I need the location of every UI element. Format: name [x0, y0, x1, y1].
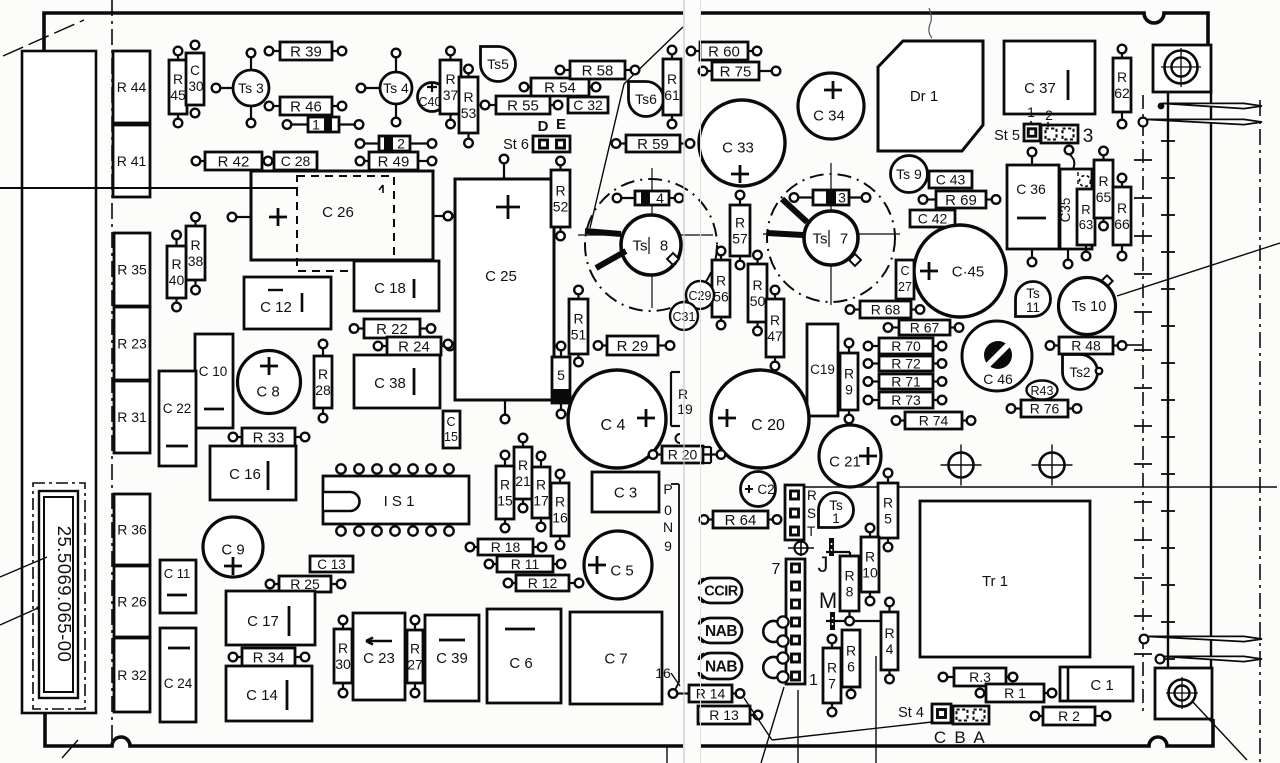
resistor R44 [113, 51, 150, 123]
svg-text:NAB: NAB [705, 623, 737, 640]
svg-text:3: 3 [838, 190, 846, 206]
svg-text:C 5: C 5 [610, 562, 633, 579]
resistor R21 [514, 434, 532, 513]
scratch line [929, 8, 932, 38]
svg-text:10: 10 [862, 565, 878, 581]
svg-text:R43: R43 [1031, 384, 1054, 398]
svg-text:R 2: R 2 [1058, 708, 1080, 724]
svg-text:R: R [1117, 69, 1127, 85]
capacitor C45 [914, 225, 1006, 317]
svg-text:R 75: R 75 [720, 63, 752, 80]
svg-text:C35: C35 [1058, 198, 1073, 223]
svg-text:11: 11 [1026, 300, 1040, 315]
capacitor C1 [1060, 667, 1133, 701]
edge pin [1146, 119, 1262, 124]
capacitor C29 [686, 281, 714, 309]
svg-text:C 20: C 20 [751, 417, 785, 434]
svg-text:R 69: R 69 [945, 192, 977, 209]
svg-text:C 10: C 10 [199, 364, 228, 379]
capacitor C31 [670, 302, 698, 330]
leader line to Ts8 [590, 27, 683, 228]
svg-text:R 22: R 22 [376, 321, 408, 338]
svg-text:C 18: C 18 [374, 280, 406, 297]
svg-text:R 54: R 54 [544, 79, 576, 96]
right rail right edge [1210, 92, 1212, 668]
thin axis through Ts8 [651, 168, 653, 308]
svg-text:C 8: C 8 [256, 383, 279, 400]
capacitor C21 [819, 425, 881, 487]
svg-text:C 36: C 36 [1016, 181, 1046, 197]
svg-text:16: 16 [552, 510, 568, 526]
svg-text:R: R [752, 277, 762, 293]
resistor R45 [169, 47, 187, 128]
integrated circuit IS1 [323, 476, 469, 524]
svg-text:R: R [338, 640, 348, 656]
svg-text:R 23: R 23 [117, 336, 147, 352]
resistor R62 [1113, 45, 1131, 129]
diode 5 [560, 348, 562, 357]
stamp NAB [698, 618, 742, 643]
svg-text:R: R [865, 549, 875, 565]
resistor R34 [229, 648, 310, 666]
svg-text:C19: C19 [810, 362, 835, 377]
svg-text:C 6: C 6 [509, 655, 532, 672]
leader line [761, 687, 784, 763]
capacitor C24 [160, 628, 196, 722]
horizontal reference line right [804, 486, 1277, 488]
leader line to corner [1192, 701, 1247, 760]
svg-text:R 24: R 24 [398, 338, 430, 355]
dash-dot line right edge [1259, 100, 1261, 763]
capacitor C28 [274, 152, 317, 170]
resistor R74 [892, 412, 976, 429]
transistor Ts9 [891, 156, 928, 193]
svg-text:R: R [500, 477, 510, 493]
resistor R72 [864, 356, 947, 372]
svg-text:R: R [410, 641, 420, 657]
resistor R40 [167, 231, 186, 312]
resistor R35 [114, 233, 150, 306]
svg-text:57: 57 [732, 231, 748, 247]
svg-text:5: 5 [884, 511, 892, 527]
loop [763, 621, 783, 642]
svg-text:C 34: C 34 [813, 107, 845, 124]
leader line to Ts10 [1117, 243, 1280, 296]
svg-text:NAB: NAB [705, 659, 737, 676]
jumper J [829, 538, 834, 556]
svg-text:1: 1 [312, 117, 320, 133]
svg-text:R 46: R 46 [290, 98, 322, 115]
capacitor C42 [910, 210, 955, 227]
resistor R16 [551, 470, 569, 550]
svg-text:R 33: R 33 [253, 429, 285, 446]
leader line (dashed, top-left corner) [3, 20, 84, 56]
resistor R64 [700, 511, 782, 529]
capacitor C20 [711, 370, 809, 468]
svg-text:R 70: R 70 [891, 338, 921, 354]
capacitor C27 [896, 260, 914, 299]
svg-text:4: 4 [656, 190, 664, 206]
page seam [683, 0, 685, 763]
capacitor C38 [354, 355, 440, 408]
left connector block [22, 51, 96, 713]
svg-text:C: C [934, 728, 946, 747]
resistor R37 [440, 47, 461, 129]
svg-text:5: 5 [557, 367, 565, 383]
capacitor C16 [210, 446, 296, 500]
svg-text:9: 9 [664, 538, 672, 554]
capacitor C10 [195, 334, 233, 428]
svg-text:4: 4 [886, 641, 894, 657]
resistor R57 [730, 191, 750, 270]
resistor R3 [939, 668, 1018, 686]
svg-text:R: R [807, 488, 817, 503]
resistor R12 [504, 575, 584, 591]
svg-text:C 25: C 25 [485, 268, 517, 285]
svg-text:T: T [807, 524, 815, 539]
thin axis through Ts7 [830, 163, 832, 305]
svg-text:R 11: R 11 [511, 556, 540, 572]
resistor R59 [612, 135, 695, 153]
resistor R66 [1113, 174, 1131, 261]
svg-text:R: R [190, 237, 200, 253]
svg-text:C 4: C 4 [601, 417, 626, 434]
svg-text:C 22: C 22 [163, 401, 192, 416]
transistor Ts6 [629, 82, 664, 117]
svg-text:15: 15 [497, 493, 513, 509]
resistor R28 [314, 340, 332, 423]
capacitor C6 [487, 609, 561, 703]
resistor R10 [861, 524, 879, 606]
svg-text:2: 2 [1045, 107, 1053, 123]
svg-text:Ts: Ts [813, 230, 828, 247]
svg-text:C: C [190, 63, 200, 78]
svg-text:R 67: R 67 [910, 320, 940, 336]
svg-text:R: R [883, 495, 893, 511]
svg-text:R 35: R 35 [117, 262, 147, 278]
resistor R75 [699, 62, 781, 80]
resistor R39 [265, 42, 347, 60]
transistor Ts4 [357, 49, 412, 127]
svg-text:28: 28 [315, 382, 331, 398]
resistor R46 [265, 97, 347, 115]
svg-text:Ts: Ts [633, 237, 648, 254]
connector St4 [932, 704, 951, 723]
svg-text:C 21: C 21 [829, 453, 861, 470]
capacitor C33 [699, 100, 785, 186]
capacitor C13 [310, 556, 353, 572]
svg-text:C 46: C 46 [983, 371, 1013, 387]
board outline bottom edge [45, 713, 683, 746]
svg-text:R 1: R 1 [1004, 685, 1026, 701]
resistor R47 [766, 286, 784, 371]
svg-text:S: S [807, 506, 816, 521]
resistor R6 [842, 630, 860, 698]
svg-text:R 26: R 26 [117, 594, 147, 610]
svg-text:Ts5: Ts5 [487, 56, 509, 72]
svg-text:R: R [445, 71, 455, 87]
svg-text:C·45: C·45 [952, 263, 985, 280]
svg-text:R 64: R 64 [725, 512, 757, 529]
capacitor C26 [251, 171, 433, 260]
resistor R63 [1077, 189, 1095, 260]
connector R-S-T [785, 485, 804, 540]
leader line [0, 608, 38, 625]
resistor R51 [569, 286, 588, 367]
transistor Ts10 [1101, 275, 1112, 286]
svg-text:51: 51 [571, 327, 587, 343]
capacitor C3 [592, 472, 659, 512]
svg-text:45: 45 [170, 87, 186, 103]
resistor R67 [884, 320, 964, 336]
svg-text:C 7: C 7 [604, 650, 627, 667]
capacitor C4 [568, 370, 666, 468]
transistor Ts11 [1016, 282, 1051, 317]
resistor R54 [520, 78, 601, 96]
transformer Tr1 [920, 501, 1090, 657]
svg-text:Ts 4: Ts 4 [383, 80, 409, 96]
svg-text:R: R [844, 366, 854, 382]
svg-text:R: R [173, 71, 183, 87]
svg-text:R: R [318, 366, 328, 382]
svg-text:R 32: R 32 [117, 667, 147, 683]
capacitor C23 [353, 613, 405, 700]
svg-text:2: 2 [397, 136, 405, 152]
resistor R58 [556, 61, 640, 79]
small c mark [676, 434, 681, 443]
svg-text:C 32: C 32 [573, 97, 603, 113]
capacitor C39 [425, 615, 479, 701]
resistor R2 [1031, 707, 1111, 725]
svg-text:C 11: C 11 [164, 566, 191, 581]
svg-text:7: 7 [828, 676, 836, 692]
bracket [710, 447, 712, 463]
resistor R60 [687, 42, 762, 60]
pin [191, 41, 200, 50]
svg-text:1: 1 [1027, 104, 1035, 120]
svg-text:R: R [844, 568, 854, 584]
svg-text:37: 37 [443, 87, 459, 103]
resistor R29 [594, 336, 675, 355]
resistor R48 [1046, 337, 1127, 354]
centerline (dash-dot) x=113 [111, 0, 113, 746]
svg-text:52: 52 [553, 199, 569, 215]
resistor R8 [840, 556, 859, 625]
resistor R42 [192, 152, 273, 170]
transistor Ts7 [767, 174, 895, 302]
svg-text:R 76: R 76 [1030, 401, 1060, 417]
resistor R18 [466, 539, 547, 555]
svg-text:38: 38 [188, 253, 204, 269]
svg-text:R: R [1081, 202, 1090, 217]
resistor R71 [864, 374, 947, 390]
pin [1096, 368, 1102, 374]
stamp CCIR [698, 578, 742, 603]
leader line [744, 698, 772, 740]
resistor R69 [919, 191, 1001, 209]
resistor R15 [496, 451, 514, 533]
svg-text:30: 30 [188, 79, 203, 94]
capacitor C11 [160, 560, 196, 613]
svg-text:R 41: R 41 [117, 153, 147, 169]
loop [763, 657, 783, 678]
svg-text:R 13: R 13 [709, 707, 739, 723]
svg-text:C 9: C 9 [221, 541, 244, 558]
transistor Ts1 [819, 493, 854, 528]
resistor R43 [1027, 381, 1058, 400]
svg-text:C 12: C 12 [260, 299, 292, 316]
resistor R4 [881, 598, 898, 684]
svg-text:R 74: R 74 [919, 413, 949, 429]
svg-text:1: 1 [832, 511, 840, 526]
svg-text:E: E [556, 116, 566, 133]
plated hole [949, 453, 974, 478]
svg-text:65: 65 [1096, 189, 1112, 205]
svg-text:17: 17 [533, 493, 549, 509]
resistor R1 [976, 684, 1057, 702]
svg-text:Ts: Ts [1026, 286, 1040, 301]
svg-text:C 3: C 3 [614, 484, 637, 501]
svg-text:Dr 1: Dr 1 [910, 88, 938, 105]
svg-text:N: N [663, 519, 673, 535]
svg-text:R 48: R 48 [1071, 338, 1101, 354]
resistor R68 [846, 301, 925, 318]
resistor R50 [748, 251, 767, 336]
svg-text:C: C [446, 415, 455, 429]
svg-text:19: 19 [677, 401, 693, 417]
resistor R9 [840, 339, 858, 424]
connector St5 [1024, 124, 1040, 141]
svg-text:R 29: R 29 [617, 338, 649, 355]
svg-text:R: R [1117, 200, 1127, 216]
connector St6 [533, 136, 570, 152]
resistor R53 [459, 65, 478, 148]
resistor R22 [350, 319, 436, 338]
diode 2 [356, 136, 437, 152]
svg-text:R 72: R 72 [891, 356, 921, 372]
svg-text:R 36: R 36 [117, 522, 147, 538]
svg-text:53: 53 [461, 105, 477, 121]
svg-text:C 28: C 28 [281, 153, 311, 169]
svg-text:21: 21 [515, 473, 531, 489]
svg-text:C 13: C 13 [317, 557, 346, 572]
capacitor C35 [1060, 169, 1092, 249]
svg-text:R: R [518, 457, 528, 473]
leader line [772, 722, 932, 740]
svg-text:27: 27 [407, 657, 423, 673]
svg-text:C 42: C 42 [918, 211, 948, 227]
svg-text:56: 56 [713, 289, 729, 305]
resistor R52 [551, 157, 570, 241]
capacitor C37 [1004, 41, 1095, 114]
svg-text:C 26: C 26 [322, 204, 354, 221]
resistor R73 [864, 392, 947, 408]
svg-text:16: 16 [655, 665, 671, 681]
capacitor C7 [570, 612, 662, 704]
svg-text:50: 50 [750, 293, 766, 309]
svg-text:Ts 9: Ts 9 [896, 166, 922, 182]
svg-text:R: R [716, 273, 726, 289]
edge pin [1163, 656, 1262, 661]
svg-text:7: 7 [772, 561, 781, 578]
svg-text:8: 8 [660, 237, 668, 254]
capacitor C17 [226, 591, 315, 645]
svg-text:C: C [900, 264, 909, 278]
capacitor C36 [1007, 165, 1059, 249]
diode 3 [790, 190, 871, 206]
resistor R41 [113, 125, 150, 197]
svg-text:R: R [827, 660, 837, 676]
resistor R49 [356, 152, 437, 170]
svg-text:CCIR: CCIR [704, 584, 738, 600]
svg-text:6: 6 [847, 659, 855, 675]
svg-text:R 34: R 34 [253, 649, 285, 666]
svg-text:8: 8 [846, 584, 854, 600]
resistor R31 [114, 381, 150, 453]
resistor R56 [712, 247, 730, 330]
svg-text:R 73: R 73 [891, 392, 921, 408]
svg-text:R 71: R 71 [891, 374, 921, 390]
svg-text:Ts2: Ts2 [1069, 365, 1090, 380]
svg-text:3: 3 [1083, 126, 1094, 147]
board outline top edge [44, 13, 683, 51]
svg-text:R 18: R 18 [491, 539, 521, 555]
capacitor C34 [798, 73, 864, 139]
svg-text:40: 40 [169, 272, 185, 288]
resistor R33 [229, 428, 310, 446]
resistor R76 [1007, 400, 1082, 417]
resistor R27 [407, 616, 423, 698]
resistor R36 [114, 494, 150, 565]
svg-text:0: 0 [664, 502, 672, 518]
svg-text:D: D [538, 118, 549, 135]
rail contact ticks [1161, 140, 1175, 142]
svg-text:R 59: R 59 [637, 136, 669, 153]
resistor R25 [266, 576, 346, 592]
svg-text:R 68: R 68 [871, 302, 901, 318]
svg-text:62: 62 [1114, 85, 1130, 101]
svg-text:R 58: R 58 [582, 62, 614, 79]
resistor R26 [114, 566, 150, 637]
svg-text:C 43: C 43 [936, 172, 966, 188]
jumper M [830, 612, 835, 630]
capacitor C12 [244, 277, 331, 329]
capacitor C9 [203, 517, 263, 577]
capacitor C32 [568, 97, 608, 113]
resistor R70 [864, 338, 947, 354]
dash-dot survey line with ticks [1142, 95, 1144, 712]
resistor R38 [186, 213, 205, 295]
svg-text:63: 63 [1079, 217, 1093, 232]
pin [1065, 146, 1074, 155]
svg-text:R: R [573, 311, 583, 327]
resistor R14 [669, 685, 745, 702]
svg-text:R: R [1098, 173, 1108, 189]
svg-text:J: J [818, 552, 829, 577]
svg-text:R: R [846, 643, 856, 659]
svg-text:C 33: C 33 [722, 139, 754, 156]
svg-text:B: B [954, 728, 965, 747]
resistor R32 [114, 638, 150, 712]
svg-text:R 55: R 55 [507, 97, 539, 114]
svg-text:C 38: C 38 [374, 375, 406, 392]
capacitor C18 [354, 261, 439, 311]
svg-text:R: R [735, 215, 745, 231]
svg-text:R 12: R 12 [528, 575, 558, 591]
svg-text:R 60: R 60 [708, 43, 740, 60]
resistor R11 [485, 556, 566, 572]
svg-text:66: 66 [1114, 216, 1130, 232]
